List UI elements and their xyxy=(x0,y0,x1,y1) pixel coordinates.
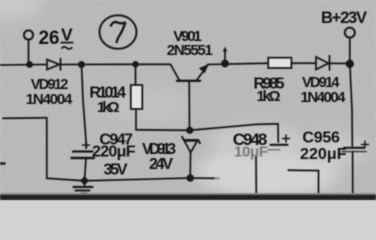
svg-text:220μF: 220μF xyxy=(92,144,136,161)
transistor V901 xyxy=(171,64,180,80)
capacitor C947 plus xyxy=(83,142,90,149)
ground xyxy=(84,183,86,187)
svg-text:220μF: 220μF xyxy=(300,146,347,163)
svg-text:1N4004: 1N4004 xyxy=(301,89,347,106)
wire: B+ node down to C956 xyxy=(350,67,352,146)
scan bottom dark band xyxy=(0,193,376,195)
wire: rail diode to C947 node xyxy=(61,63,136,65)
svg-text:10μF: 10μF xyxy=(234,144,268,161)
resistor R1014 xyxy=(135,64,137,85)
wire: whiteout L-shape xyxy=(288,170,318,196)
node: zener ground junction xyxy=(186,174,194,182)
white-out patch bottom center xyxy=(196,146,340,198)
terminal B+23V circle xyxy=(345,28,355,38)
wire: C947 to ground rail xyxy=(85,158,87,181)
svg-text:C956: C956 xyxy=(302,130,340,147)
wire: zener to ground rail xyxy=(189,153,191,179)
label circled 7 xyxy=(100,15,137,49)
wire: B+ terminal stub xyxy=(349,38,351,60)
wire: ground rail fading end xyxy=(214,177,219,179)
capacitor C948 xyxy=(271,144,288,146)
capacitor C947 xyxy=(73,150,93,152)
wire: R985 to VD914 xyxy=(291,62,316,64)
wire: C956 ground lead xyxy=(352,152,354,195)
wire: terminal stub xyxy=(28,40,30,65)
wire: left vertical to ground rail xyxy=(46,118,48,179)
node: C947 branch xyxy=(78,61,85,68)
wire: base node to C948 xyxy=(190,124,279,142)
wire: C947 branch down xyxy=(82,65,87,148)
wire: left input rail xyxy=(0,64,47,67)
svg-text:1kΩ: 1kΩ xyxy=(257,88,281,105)
capacitor C956 plus xyxy=(362,141,369,148)
test point arrow up xyxy=(224,49,226,64)
wire: rail to transistor collector xyxy=(136,63,171,65)
svg-text:26: 26 xyxy=(39,28,60,49)
svg-text:V: V xyxy=(61,25,73,45)
wire: emitter rail xyxy=(208,63,268,64)
wire: VD914 to B+ node xyxy=(330,62,350,64)
wire: R1014 to base node xyxy=(136,129,190,132)
terminal 26V circle xyxy=(24,30,33,39)
capacitor C948 plus xyxy=(283,135,290,142)
wire: left edge fragment xyxy=(0,162,5,165)
diode VD912 xyxy=(47,60,60,70)
node: B+ junction xyxy=(346,60,354,68)
capacitor C956 xyxy=(344,147,364,149)
svg-text:35V: 35V xyxy=(104,162,128,179)
svg-text:1kΩ: 1kΩ xyxy=(97,99,120,116)
svg-text:24V: 24V xyxy=(149,156,173,173)
svg-text:B+23V: B+23V xyxy=(321,9,367,27)
node: R1014 branch xyxy=(132,61,139,68)
node: emitter junction xyxy=(221,60,229,68)
wire: ground rail xyxy=(47,178,214,181)
resistor R985 xyxy=(268,58,291,68)
svg-text:2N5551: 2N5551 xyxy=(167,42,213,59)
svg-text:1N4004: 1N4004 xyxy=(26,91,73,108)
wire: left stub from adjacent circuit xyxy=(3,117,47,120)
light corner top-left xyxy=(0,0,42,19)
diode VD914 xyxy=(316,57,329,70)
node: ground junction xyxy=(80,176,89,185)
node: base/zener junction xyxy=(186,127,193,134)
zener diode VD913 xyxy=(182,137,200,143)
wire: C948 ground lead xyxy=(255,157,257,196)
node: junction left terminal xyxy=(26,61,33,68)
